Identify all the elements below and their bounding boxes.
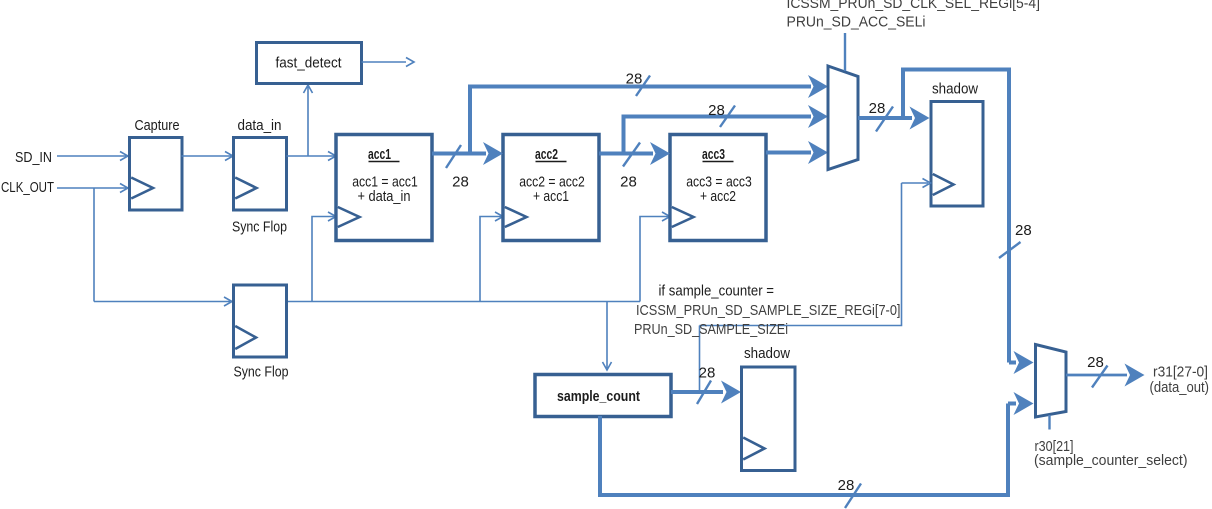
flip-flop data_in (Sync Flop)	[234, 138, 287, 211]
wire CLK_OUT to Capture clock	[57, 187, 126, 189]
svg-text:28: 28	[626, 71, 643, 88]
slash bus acc2-acc3	[623, 143, 640, 167]
register acc1	[336, 135, 432, 241]
wire Capture to data_in	[182, 155, 232, 157]
svg-text:28: 28	[838, 477, 855, 494]
wire acc1 clock	[312, 217, 334, 302]
svg-text:28: 28	[1087, 354, 1104, 371]
register acc3	[670, 135, 766, 241]
slash rail1	[636, 76, 650, 97]
wire shadow1 clock	[700, 183, 929, 391]
bus acc3 to mux input 3	[766, 151, 811, 155]
svg-text:PRUn_SD_SAMPLE_SIZEi: PRUn_SD_SAMPLE_SIZEi	[634, 321, 788, 338]
bus acc2 branch up to mux input 2	[622, 117, 812, 154]
wire data_in to acc1	[287, 155, 335, 157]
svg-text:CLK_OUT: CLK_OUT	[1, 179, 54, 196]
register shadow 2	[742, 367, 796, 471]
svg-text:28: 28	[708, 102, 725, 119]
svg-text:SD_IN: SD_IN	[15, 149, 52, 166]
wire to fast_detect	[307, 87, 309, 156]
svg-text:acc3: acc3	[702, 146, 725, 163]
slash mux2 out	[1092, 366, 1108, 388]
bus sample_count down and right to mux 2	[598, 404, 1016, 498]
wire SD_IN to Capture	[57, 155, 126, 157]
bus acc2 to acc3	[599, 152, 653, 156]
register sample_count	[535, 375, 671, 417]
wire fast_detect output	[362, 61, 407, 63]
wire mux U1 select	[844, 33, 846, 71]
bus mux U2 output	[1066, 374, 1127, 377]
svg-text:acc2: acc2	[535, 146, 558, 163]
svg-text:fast_detect: fast_detect	[276, 55, 343, 72]
block fast_detect	[257, 43, 362, 84]
svg-text:(data_out): (data_out)	[1150, 379, 1210, 396]
svg-text:sample_count: sample_count	[557, 388, 640, 405]
wire acc2 clock	[480, 217, 501, 302]
slash sample-shadow	[697, 381, 711, 405]
svg-text:r31[27-0]: r31[27-0]	[1153, 364, 1208, 381]
flip-flop Sync Flop 2	[234, 285, 287, 357]
svg-text:Sync Flop: Sync Flop	[234, 364, 289, 381]
svg-text:+ acc2: + acc2	[700, 188, 736, 205]
svg-text:28: 28	[452, 174, 469, 191]
wire sample_count clock	[606, 302, 608, 369]
svg-text:shadow: shadow	[744, 345, 790, 362]
bus mux U1 output to shadow	[858, 116, 912, 120]
svg-text:(sample_counter_select): (sample_counter_select)	[1034, 452, 1188, 469]
slash mux1 out	[876, 107, 893, 132]
svg-text:+ acc1: + acc1	[533, 188, 569, 205]
mux U1	[828, 66, 858, 170]
svg-text:data_in: data_in	[238, 117, 282, 134]
wire mux U2 select tail	[1048, 415, 1050, 430]
bus acc1 branch up to mux input 1	[468, 87, 811, 154]
svg-text:ICSSM_PRUn_SD_SAMPLE_SIZE_REGi: ICSSM_PRUn_SD_SAMPLE_SIZE_REGi[7-0]	[636, 302, 901, 319]
slash right vertical	[999, 242, 1021, 258]
slash bottom rail	[845, 484, 861, 509]
svg-text:shadow: shadow	[932, 81, 978, 98]
svg-text:ICSSM_PRUn_SD_CLK_SEL_REGi[5-4: ICSSM_PRUn_SD_CLK_SEL_REGi[5-4]	[787, 0, 1041, 12]
register acc2	[503, 135, 599, 241]
mux U2	[1036, 345, 1067, 418]
flip-flop Capture	[130, 138, 183, 211]
svg-text:28: 28	[620, 174, 637, 191]
slash bus acc1-acc2	[446, 145, 461, 168]
svg-text:+ data_in: + data_in	[358, 188, 411, 205]
wire CLK_OUT branch down to clock rail	[93, 188, 95, 302]
wire acc3 clock	[640, 217, 668, 302]
wire clock rail	[94, 301, 230, 303]
svg-text:PRUn_SD_ACC_SELi: PRUn_SD_ACC_SELi	[787, 14, 926, 31]
svg-text:Sync Flop: Sync Flop	[232, 219, 287, 236]
bus sample_count to shadow 2	[671, 390, 723, 394]
svg-text:28: 28	[699, 365, 716, 382]
slash rail2	[720, 106, 735, 128]
svg-text:acc1: acc1	[368, 146, 391, 163]
svg-text:28: 28	[1015, 222, 1032, 239]
svg-text:if sample_counter =: if sample_counter =	[659, 283, 775, 300]
svg-text:28: 28	[869, 100, 886, 117]
svg-text:Capture: Capture	[135, 117, 180, 134]
register shadow 1	[931, 102, 983, 207]
bus loop from mux output over to right rail	[901, 68, 1016, 363]
bus acc1 to acc2	[432, 152, 486, 156]
